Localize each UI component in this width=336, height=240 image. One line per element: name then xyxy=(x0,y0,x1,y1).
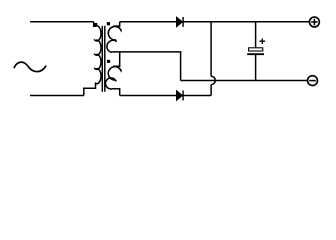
transformer T1 primary winding cusp curls xyxy=(94,39,95,69)
AC source V1 (sine symbol) xyxy=(14,62,46,71)
wire: center-tap wire from secondaries to minus bus corner xyxy=(112,52,181,81)
diode D1 (top rectifier) xyxy=(176,17,183,27)
transformer T1 primary winding (4 turns, bulge right) xyxy=(84,22,101,96)
wire: minus bus from corner to minus terminal xyxy=(181,80,308,82)
wire: junction riser from bottom rail up to top rail xyxy=(210,22,212,96)
transformer T1 core (two vertical bars) xyxy=(102,26,105,92)
terminal minus (circle with -) xyxy=(308,76,318,86)
wire hop (crossover arc on riser over minus bus) xyxy=(211,76,215,84)
transformer T1 secondary winding B (bottom, 2 loop turns, opening right) xyxy=(105,52,121,96)
wire: bottom rail from D2 to junction riser xyxy=(183,95,211,97)
transformer T1 polarity dot (secondary B) xyxy=(107,60,110,63)
wire: bottom rail from transformer to diode D2 xyxy=(120,95,177,97)
wire: top-left from AC to primary xyxy=(30,21,94,23)
transformer T1 polarity dot (secondary A) xyxy=(107,22,110,25)
diode D2 (bottom rectifier) xyxy=(176,91,183,101)
terminal plus (circle with +) xyxy=(309,17,319,27)
wire: top rail from transformer to diode D1 xyxy=(120,21,177,23)
capacitor C1 positive plate (hollow) xyxy=(249,48,263,51)
capacitor C1 plus label xyxy=(260,38,266,44)
capacitor C1 top lead xyxy=(255,22,257,48)
transformer T1 polarity dot (primary) xyxy=(94,23,97,26)
capacitor C1 bottom lead xyxy=(255,55,257,81)
transformer T1 secondary winding A (top, 2 loop turns, opening right) xyxy=(107,22,121,52)
capacitor C1 negative plate xyxy=(247,53,264,55)
wire: top rail from D1 to plus terminal xyxy=(183,21,310,23)
wire: bottom-left from AC to primary xyxy=(30,95,84,97)
